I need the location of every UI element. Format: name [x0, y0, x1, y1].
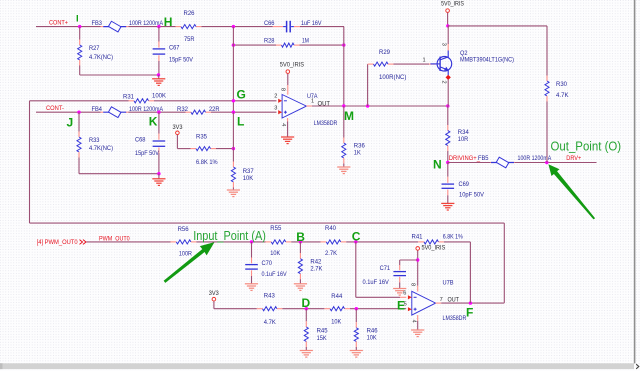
svg-text:R40: R40 [325, 225, 337, 232]
ground C69 [441, 202, 454, 204]
wire U7B out row [441, 302, 504, 304]
svg-text:10pF 50V: 10pF 50V [459, 193, 484, 199]
op-amp U7A [274, 88, 338, 127]
annotation arrow input [164, 242, 215, 283]
ground U7B pin4 [411, 315, 424, 337]
svg-text:R26: R26 [184, 10, 196, 17]
svg-text:FB5: FB5 [478, 155, 489, 162]
resistor R30 [545, 81, 569, 163]
svg-text:R55: R55 [270, 225, 282, 232]
svg-text:3: 3 [274, 105, 277, 111]
svg-text:K: K [149, 114, 158, 128]
svg-text:R41: R41 [412, 233, 424, 240]
svg-text:4.7K(NC): 4.7K(NC) [89, 146, 113, 152]
junction R26/C66/vertical [232, 25, 235, 28]
wire feedback right vertical [503, 223, 505, 303]
svg-text:15K: 15K [317, 335, 328, 342]
svg-text:Input_Point (A): Input_Point (A) [193, 228, 266, 243]
svg-text:Q2: Q2 [460, 50, 468, 57]
svg-text:R42: R42 [310, 259, 322, 266]
svg-text:3V3: 3V3 [209, 290, 220, 297]
svg-text:OUT: OUT [448, 297, 460, 303]
resistor R34 [446, 106, 470, 163]
junction D R45 [305, 307, 308, 310]
annotation arrow output [548, 164, 595, 219]
resistor R45 [304, 309, 328, 351]
junction C68 bottom [157, 172, 160, 175]
ground R36 [337, 166, 350, 168]
wire vertical mid node [232, 27, 234, 113]
svg-text:G: G [237, 87, 246, 101]
svg-text:1M: 1M [302, 37, 309, 44]
svg-text:10K: 10K [367, 334, 378, 341]
svg-text:R36: R36 [354, 142, 366, 149]
wire R31 rail [30, 100, 277, 102]
svg-text:R32: R32 [177, 106, 189, 113]
svg-text:8: 8 [410, 283, 416, 286]
svg-text:R56: R56 [178, 226, 190, 233]
junction R32 rail [232, 111, 235, 114]
svg-text:10R: 10R [458, 136, 469, 143]
svg-text:R45: R45 [317, 328, 329, 335]
wire emitter vertical [447, 79, 449, 106]
ground R42 [294, 283, 307, 285]
power 5V0_IRIS U7B [416, 245, 445, 292]
capacitor C69 [442, 163, 485, 204]
resistor R46 [354, 309, 378, 351]
wire CONT- rail [36, 111, 277, 113]
svg-text:C70: C70 [262, 260, 273, 267]
junction A C70 [250, 240, 253, 243]
svg-text:E: E [397, 299, 405, 313]
svg-text:C67: C67 [169, 44, 180, 51]
svg-text:R35: R35 [196, 133, 208, 140]
wire left vertical feedback [29, 101, 31, 223]
resistor R42 [298, 242, 323, 284]
capacitor C67 [153, 27, 193, 75]
svg-text:22R: 22R [209, 106, 220, 113]
wire vertical C66-OUT [343, 27, 345, 106]
junction CONT-/R33 [77, 111, 80, 114]
junction R28 tap [232, 43, 235, 46]
svg-text:J: J [67, 115, 74, 129]
ground R45 [300, 350, 313, 352]
svg-text:F: F [466, 306, 473, 320]
wire OUT rail U7A [312, 105, 448, 107]
svg-text:6: 6 [403, 291, 406, 297]
ground R37 [227, 189, 240, 191]
svg-text:15pF 50V: 15pF 50V [169, 58, 193, 64]
svg-text:N: N [433, 158, 442, 172]
svg-text:100K: 100K [152, 93, 167, 100]
wire feedback rail [30, 222, 505, 224]
junction 5V0 rail [446, 24, 449, 27]
junction G rail [232, 99, 235, 102]
junction R41 feedback [469, 301, 472, 304]
svg-text:0.1uF 16V: 0.1uF 16V [363, 280, 389, 286]
power 3V3 R43 [209, 290, 220, 309]
svg-text:OUT: OUT [318, 101, 331, 107]
resistor R37 [231, 162, 254, 190]
svg-text:5V0_IRIS: 5V0_IRIS [441, 0, 464, 7]
wire vertical to R37 [232, 112, 234, 161]
capacitor C71 [363, 260, 418, 288]
resistor R56 [176, 226, 192, 257]
ferrite bead FB3 [92, 20, 164, 32]
svg-text:FB3: FB3 [92, 20, 103, 27]
svg-text:1: 1 [311, 99, 314, 105]
wire R27/C67 bottom rail [80, 74, 159, 76]
wire 5V0 to R30 [448, 26, 547, 81]
svg-text:2: 2 [441, 81, 447, 84]
svg-text:LM358DR: LM358DR [443, 315, 467, 322]
power 5V0_IRIS Q2 [441, 0, 464, 26]
resistor R43 [263, 293, 277, 326]
ground C70 [245, 283, 258, 285]
svg-text:L: L [237, 115, 244, 129]
svg-text:2.7K: 2.7K [325, 250, 338, 257]
junction OUT/emitter [446, 104, 449, 107]
svg-text:R33: R33 [89, 137, 100, 144]
ground U7A pin4 [281, 118, 294, 144]
emitter junction marker [446, 75, 451, 80]
svg-text:LM358DR: LM358DR [314, 120, 338, 127]
power 3V3 R35 [173, 124, 184, 149]
svg-text:CONT-: CONT- [46, 105, 64, 112]
ferrite bead FB4 [92, 106, 164, 117]
svg-text:R27: R27 [89, 45, 100, 52]
svg-text:1uF 16V: 1uF 16V [301, 21, 322, 27]
resistor R28 [264, 37, 309, 47]
svg-text:DRIVING+_: DRIVING+_ [449, 156, 481, 162]
transistor Q2 [430, 50, 514, 75]
svg-text:U7B: U7B [443, 279, 454, 286]
resistor R44 [330, 293, 344, 325]
svg-text:1: 1 [423, 58, 426, 64]
capacitor C66 [264, 20, 322, 32]
svg-text:15pF 50V: 15pF 50V [135, 151, 159, 157]
junction R30/DRV+ [545, 161, 548, 164]
ground R46 [350, 350, 363, 352]
ferrite bead FB5 [478, 155, 551, 168]
op-amp U7B [403, 279, 467, 322]
resistor R35 [196, 133, 218, 166]
wire R33/C68 bottom rail [79, 173, 159, 175]
svg-text:10K: 10K [270, 250, 281, 257]
ground C67 [152, 75, 165, 85]
svg-text:10K: 10K [243, 175, 254, 182]
svg-text:7: 7 [440, 297, 443, 303]
svg-text:R44: R44 [331, 293, 343, 300]
junction OUT/R29v [366, 104, 369, 107]
wire collector vertical [447, 26, 449, 51]
svg-text:Out_Point (O): Out_Point (O) [551, 138, 622, 153]
wire C vertical to pin6 [356, 242, 407, 297]
svg-text:5V0_IRIS: 5V0_IRIS [422, 245, 446, 252]
svg-text:100R: 100R [179, 250, 192, 257]
port [4] PWM_OUT0 [37, 239, 86, 246]
resistor R26 [181, 10, 196, 43]
svg-text:3: 3 [441, 43, 447, 46]
svg-text:3V3: 3V3 [173, 124, 184, 131]
junction C vertical [354, 240, 357, 243]
wire R28 rail [233, 44, 344, 46]
junction CONT+/R27 [78, 25, 81, 28]
capacitor C68 [135, 112, 165, 174]
resistor R33 [77, 112, 113, 174]
svg-text:5V0_IRIS: 5V0_IRIS [280, 61, 304, 68]
svg-text:R30: R30 [556, 81, 568, 88]
svg-text:DRV+: DRV+ [566, 155, 581, 162]
svg-text:6.8K 1%: 6.8K 1% [443, 234, 464, 240]
svg-text:4: 4 [410, 320, 416, 323]
wire CONT+ rail [36, 26, 233, 28]
svg-text:2: 2 [274, 94, 277, 100]
svg-text:1K: 1K [354, 150, 362, 157]
scrollbar horizontal [0, 363, 634, 369]
svg-text:I: I [76, 13, 79, 24]
svg-text:8: 8 [279, 88, 285, 91]
wire C66 rail [233, 26, 344, 28]
svg-text:4: 4 [280, 123, 286, 126]
svg-text:M: M [344, 109, 354, 123]
resistor R32 [177, 106, 220, 114]
wire R43 row [214, 308, 406, 310]
svg-text:R29: R29 [379, 49, 391, 56]
resistor R27 [78, 27, 113, 75]
wire PWM row [87, 241, 471, 243]
wire R35 row [177, 148, 233, 150]
svg-text:FB4: FB4 [92, 106, 103, 113]
junction R28/vertical right [342, 43, 345, 46]
wire R29 row [368, 63, 436, 65]
svg-text:C71: C71 [380, 265, 391, 272]
svg-text:4.7K: 4.7K [556, 92, 569, 99]
scrollbar corner arrow [636, 364, 639, 369]
svg-text:MMBT3904LT1G(NC): MMBT3904LT1G(NC) [460, 57, 514, 63]
wire R41 vertical [469, 242, 471, 303]
resistor R41 [412, 233, 464, 244]
scrollbar vertical edge [634, 0, 636, 363]
power 5V0_IRIS U7A [280, 61, 304, 94]
svg-text:C68: C68 [135, 136, 146, 143]
svg-text:2.7K: 2.7K [310, 266, 323, 273]
svg-text:10K: 10K [331, 319, 342, 326]
wire R29 vertical [367, 64, 369, 106]
svg-text:[4] PWM_OUT0: [4] PWM_OUT0 [37, 239, 79, 246]
resistor R31 [123, 93, 167, 103]
svg-text:0.1uF 16V: 0.1uF 16V [262, 272, 287, 278]
junction R35/vertical [232, 147, 235, 150]
junction B R42 [299, 240, 302, 243]
svg-text:4.7K(NC): 4.7K(NC) [89, 55, 113, 61]
svg-text:R31: R31 [123, 93, 135, 100]
junction OUT/R36 [342, 104, 345, 107]
svg-text:B: B [296, 230, 305, 244]
junction C67 bottom [157, 73, 160, 76]
svg-text:75R: 75R [184, 36, 195, 43]
svg-text:R28: R28 [264, 37, 275, 44]
svg-text:R34: R34 [458, 129, 470, 136]
svg-text:100R(NC): 100R(NC) [379, 75, 406, 81]
junction R44/R46 [355, 307, 358, 310]
ground C71 [393, 288, 406, 290]
resistor R40 [325, 225, 341, 257]
resistor R29 [374, 49, 407, 81]
resistor R36 [342, 106, 366, 167]
svg-text:H: H [164, 15, 173, 29]
junction C71/power [416, 258, 419, 261]
capacitor C70 [245, 242, 286, 284]
svg-text:6.8K 1%: 6.8K 1% [196, 160, 218, 166]
svg-text:R37: R37 [243, 168, 255, 175]
junction C67 top [157, 25, 160, 28]
wire DRIVING+ row [448, 162, 597, 164]
junction C68 top [157, 111, 160, 114]
junction DRIVING+/C69 [446, 161, 449, 164]
svg-text:CONT+: CONT+ [49, 20, 68, 27]
resistor R55 [270, 225, 285, 257]
svg-text:C69: C69 [459, 181, 470, 188]
svg-text:R43: R43 [264, 293, 276, 300]
ground C68 [152, 174, 165, 186]
svg-text:C: C [352, 230, 361, 244]
svg-text:C66: C66 [264, 20, 275, 27]
svg-text:4.7K: 4.7K [264, 319, 277, 326]
